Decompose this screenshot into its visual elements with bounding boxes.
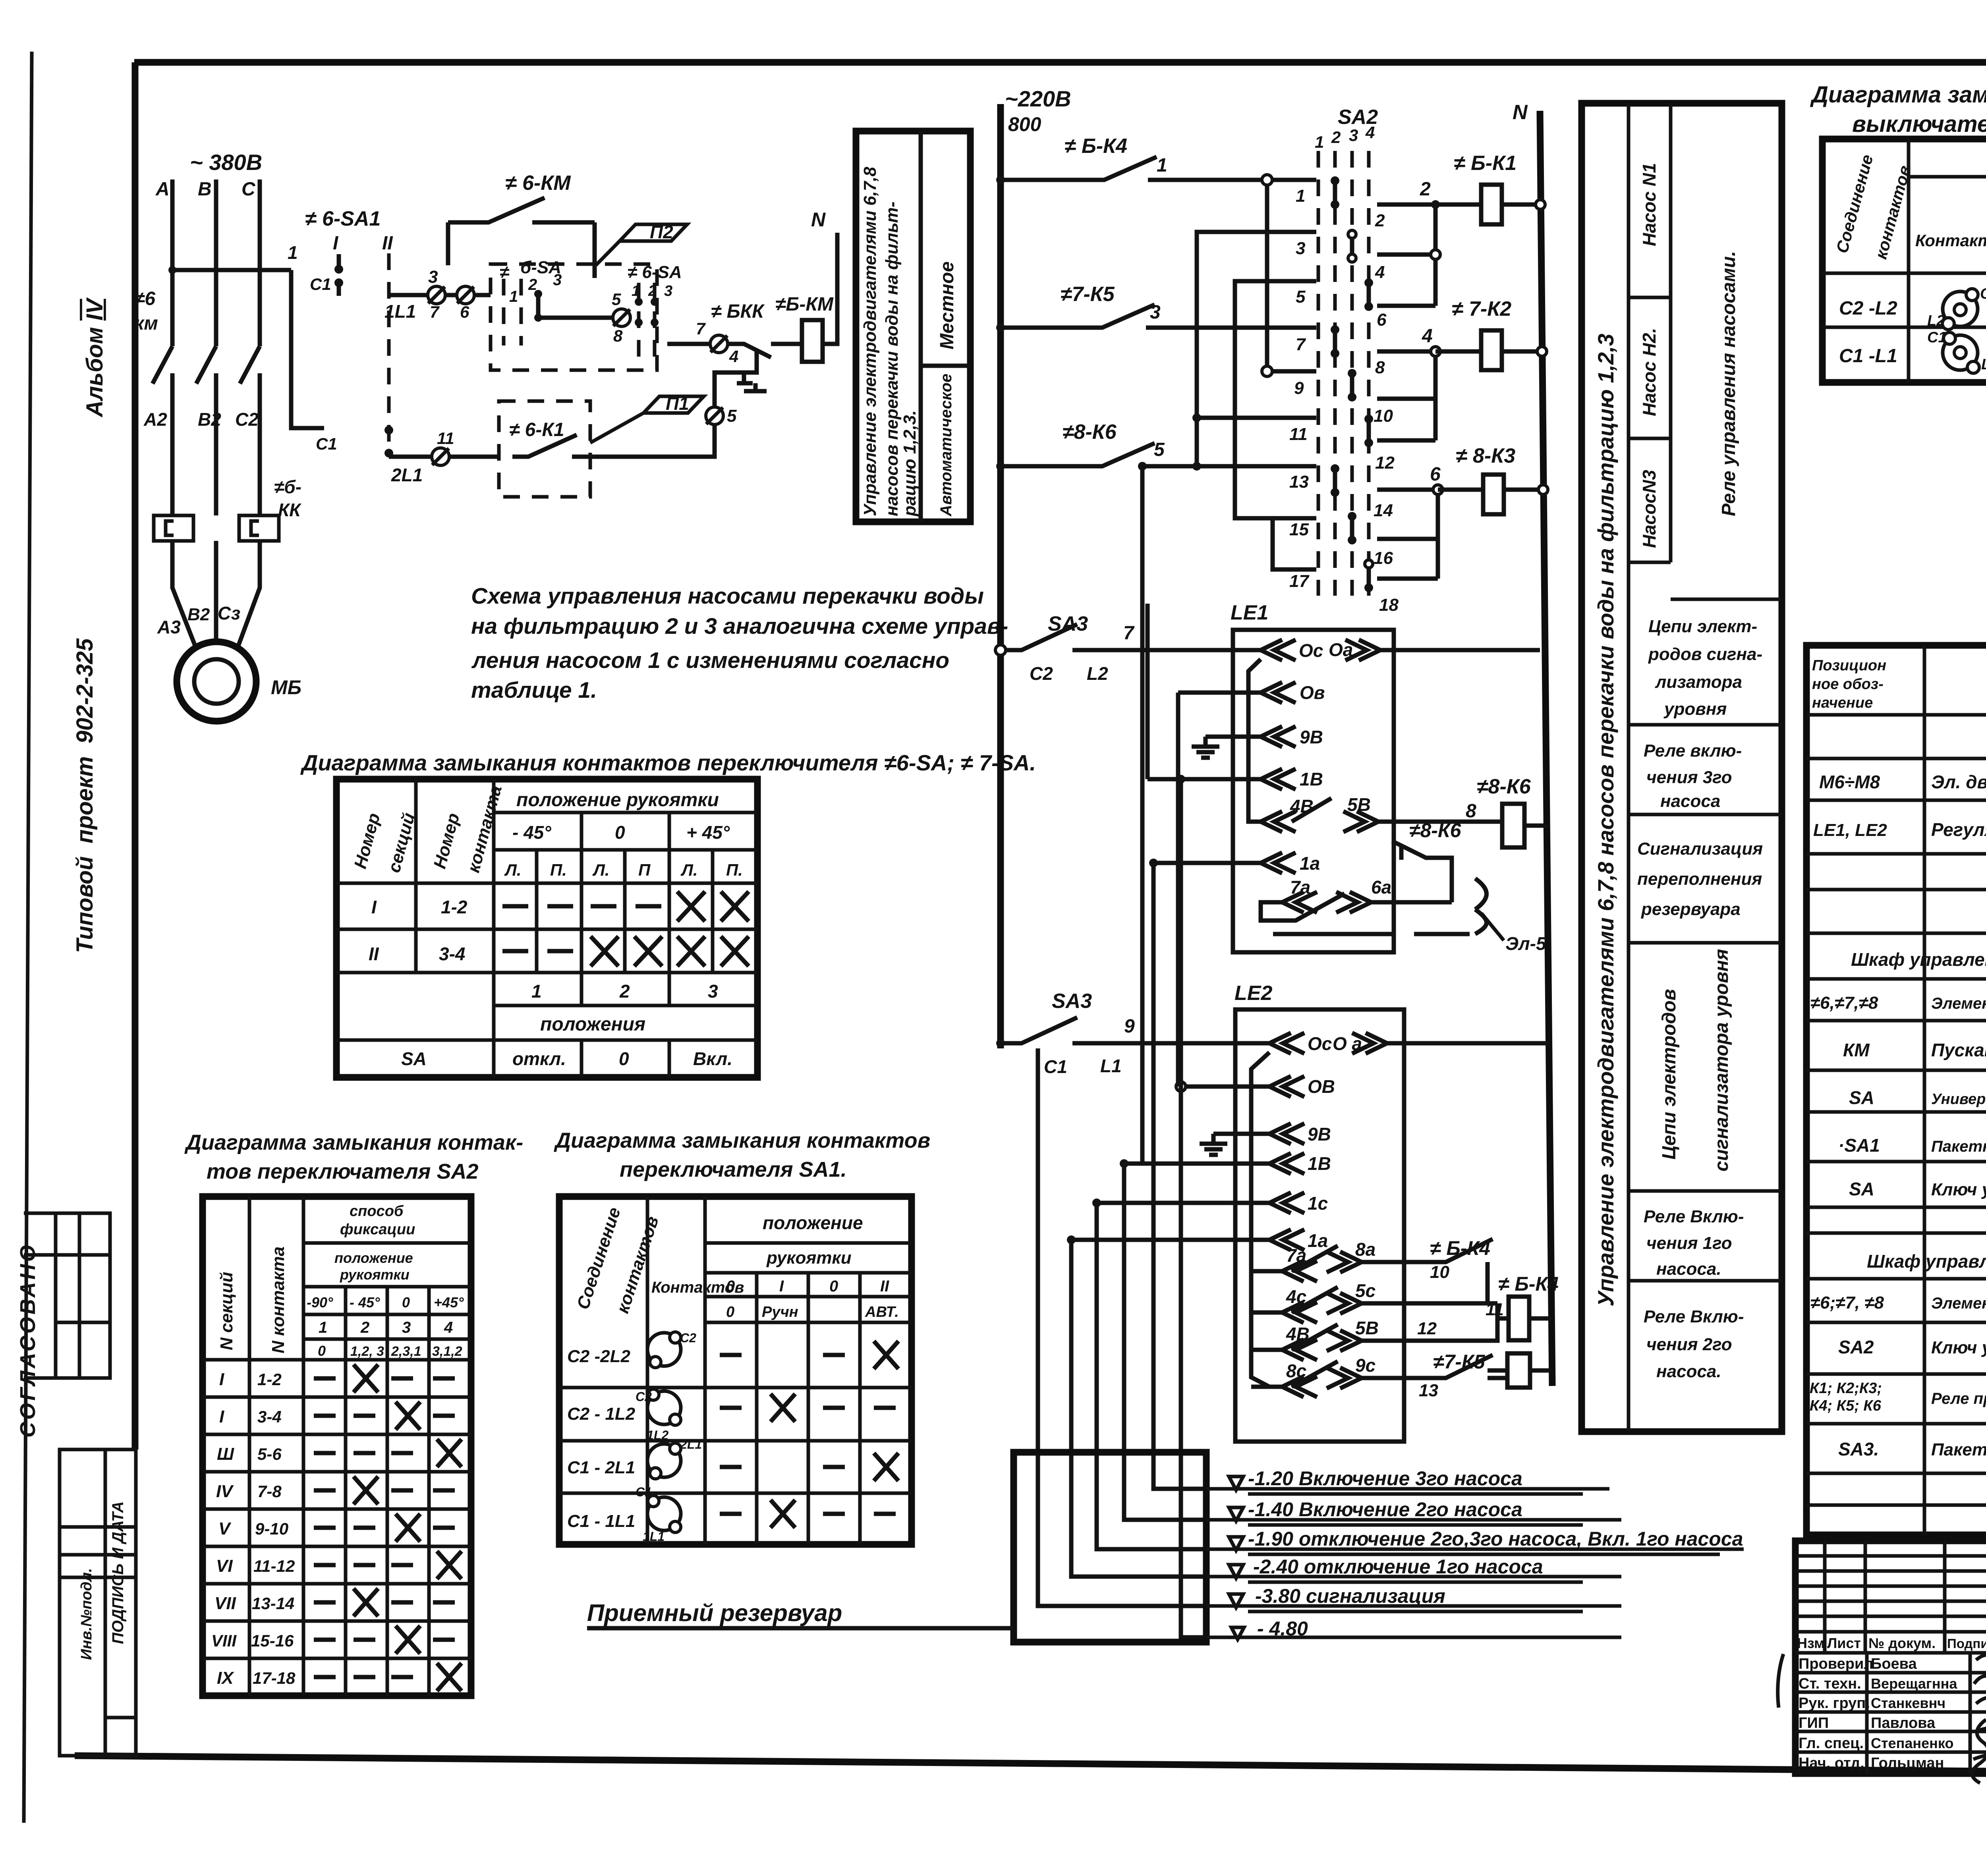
LE1 arrow 1V: [1148, 769, 1296, 789]
svg-text:Эл. двигатель типа А02-52-4,: Эл. двигатель типа А02-52-4, 10кВт, ~ 38…: [1931, 772, 1986, 792]
svg-text:≠6;≠7, ≠8: ≠6;≠7, ≠8: [1810, 1293, 1884, 1312]
svg-text:9-10: 9-10: [255, 1519, 288, 1538]
svg-text:положение: положение: [763, 1212, 863, 1233]
svg-text:2: 2: [360, 1319, 369, 1336]
svg-text:15: 15: [1289, 520, 1309, 539]
svg-text:1: 1: [288, 242, 298, 263]
svg-text:- 4.80: - 4.80: [1257, 1617, 1308, 1640]
wire 2L1 row: [389, 455, 499, 459]
relay K2 coil: [1481, 330, 1502, 370]
svg-text:≠ Б-К4: ≠ Б-К4: [1498, 1273, 1559, 1295]
svg-text:таблице 1.: таблице 1.: [471, 677, 597, 703]
dashed box SA selector P2: [491, 264, 657, 370]
svg-text:8: 8: [1466, 801, 1476, 822]
svg-text:С2 - 1L2: С2 - 1L2: [567, 1404, 636, 1424]
parts table verticals: [1924, 645, 1986, 1535]
svg-text:2: 2: [619, 981, 630, 1002]
thermal relay KK box A: [154, 515, 193, 541]
svg-text:1а: 1а: [1308, 1230, 1328, 1251]
svg-text:Реле Вклю-: Реле Вклю-: [1644, 1307, 1744, 1326]
svg-text:Типовой проект 902-2-325: Типовой проект 902-2-325: [72, 638, 98, 953]
svg-text:- 45°: - 45°: [350, 1294, 380, 1310]
svg-text:II: II: [880, 1278, 889, 1295]
row II dashes: [502, 949, 573, 953]
relay K2 feed wires: [1377, 351, 1435, 440]
svg-text:чения 2го: чения 2го: [1646, 1335, 1732, 1354]
svg-text:чения 3го: чения 3го: [1646, 768, 1732, 787]
svg-text:Шкаф управления насосами перек: Шкаф управления насосами перекачки воды …: [1851, 949, 1986, 970]
svg-text:ПОДПИСЬ И ДАТА: ПОДПИСЬ И ДАТА: [109, 1501, 127, 1644]
svg-text:положение рукоятки: положение рукоятки: [516, 789, 719, 811]
svg-text:7: 7: [696, 319, 706, 338]
svg-text:3: 3: [664, 283, 672, 299]
svg-text:1с: 1с: [1308, 1193, 1328, 1214]
svg-text:II: II: [369, 944, 379, 964]
svg-text:SА2: SА2: [1838, 1337, 1874, 1357]
svg-text:Местное: Местное: [937, 261, 958, 349]
svg-text:~220В: ~220В: [1005, 86, 1071, 111]
svg-text:Вкл.: Вкл.: [693, 1048, 732, 1069]
SA2 contact pair 1-2: [1333, 181, 1337, 205]
motor M6 inner circle: [194, 659, 239, 704]
svg-text:Автоматическое: Автоматическое: [937, 374, 955, 517]
svg-text:≠б-: ≠б-: [274, 477, 301, 497]
svg-text:≠ БКК: ≠ БКК: [711, 301, 765, 322]
tall function table frame: [1582, 103, 1782, 1432]
svg-text:1: 1: [1296, 186, 1305, 206]
svg-text:Боева: Боева: [1871, 1656, 1917, 1672]
electrode wire 1c2: [1097, 1203, 1206, 1549]
LE1 box: [1233, 630, 1394, 952]
svg-text:начение: начение: [1812, 695, 1873, 711]
svg-text:SА3: SА3: [1048, 612, 1088, 635]
svg-text:Ос: Ос: [1308, 1033, 1332, 1054]
svg-text:П1: П1: [666, 393, 689, 414]
svg-text:11-12: 11-12: [253, 1557, 295, 1575]
svg-text:+45°: +45°: [434, 1294, 464, 1310]
svg-text:С1 - 1L1: С1 - 1L1: [567, 1511, 635, 1531]
svg-text:К1; К2;К3;: К1; К2;К3;: [1810, 1380, 1882, 1397]
wire row17 to LE1 Ov: [1176, 693, 1180, 1087]
wire phase B2: [214, 373, 218, 515]
electrode wire 1v2: [1124, 1164, 1206, 1520]
svg-text:М6÷М8: М6÷М8: [1819, 772, 1880, 792]
svg-text:Пускатель магнитный ПАЕ312, Н: Пускатель магнитный ПАЕ312, Н.Э. 21. 2А …: [1931, 1040, 1986, 1060]
svg-text:LЕ1: LЕ1: [1231, 601, 1268, 624]
parts table horizontals: [1806, 715, 1986, 1505]
svg-text:Подпись: Подпись: [1947, 1636, 1986, 1651]
svg-text:ГИП: ГИП: [1799, 1715, 1829, 1731]
svg-text:17-18: 17-18: [253, 1669, 296, 1687]
svg-text:КМ: КМ: [1843, 1040, 1870, 1060]
svg-text:13: 13: [1289, 472, 1309, 492]
KM aux vertical stubs: [448, 222, 595, 278]
svg-text:LЕ2: LЕ2: [1234, 982, 1272, 1005]
svg-text:рукоятки: рукоятки: [766, 1248, 852, 1268]
wire KK to coil: [790, 342, 802, 346]
svg-text:5: 5: [612, 290, 621, 309]
svg-text:SА3: SА3: [1052, 990, 1092, 1013]
svg-text:ное обоз-: ное обоз-: [1812, 676, 1884, 693]
svg-text:Цепи электродов: Цепи электродов: [1659, 989, 1680, 1160]
svg-text:насоса: насоса: [1660, 791, 1720, 811]
SA2 table grid: [203, 1197, 471, 1696]
svg-text:3: 3: [1349, 126, 1358, 145]
svg-text:2,3,1: 2,3,1: [391, 1344, 421, 1359]
row marks 2: [314, 1414, 455, 1418]
svg-text:6а: 6а: [1371, 877, 1391, 897]
electrode wire c1 long: [1038, 1048, 1206, 1606]
svg-text:Регулятор-сигнализатор уровня: Регулятор-сигнализатор уровня ЭРСУ-3: [1931, 819, 1986, 840]
svg-text:Нзм: Нзм: [1797, 1635, 1825, 1651]
svg-text:Пакетный переключатель ПП2-10/: Пакетный переключатель ПП2-10/н2 ОСТ 160…: [1931, 1138, 1986, 1155]
svg-text:5: 5: [1154, 439, 1165, 460]
row marks 5: [314, 1526, 455, 1530]
svg-text:Сигнализация: Сигнализация: [1637, 839, 1763, 859]
svg-text:способ: способ: [350, 1203, 404, 1220]
svg-text:0: 0: [402, 1294, 410, 1310]
svg-text:≠8-К6: ≠8-К6: [1409, 819, 1462, 841]
svg-text:С2: С2: [636, 1390, 652, 1404]
svg-text:1: 1: [1157, 155, 1167, 176]
callout leader P2: [596, 241, 620, 265]
row marks 8: [314, 1638, 455, 1642]
reservoir box: [1014, 1452, 1206, 1642]
frame top border: [134, 59, 1986, 66]
svg-text:9В: 9В: [1300, 727, 1323, 747]
svg-text:1В: 1В: [1300, 769, 1323, 789]
svg-text:12: 12: [1417, 1319, 1437, 1338]
svg-text:Пакетный выключатель ПВ2-10.: Пакетный выключатель ПВ2-10. ОСТ 16.0. 5…: [1931, 1440, 1986, 1459]
svg-text:Степаненко: Степаненко: [1871, 1735, 1953, 1751]
row marks 1: [314, 1376, 455, 1381]
svg-text:-90°: -90°: [307, 1294, 333, 1310]
svg-text:А3: А3: [157, 617, 181, 637]
svg-text:11: 11: [437, 429, 454, 448]
SA1 contact II dots: [384, 426, 393, 434]
SA2 contact pair 9-10: [1350, 373, 1354, 397]
svg-text:Шкаф управления насосами перек: Шкаф управления насосами перекачки воды …: [1867, 1251, 1986, 1272]
svg-text:3: 3: [708, 981, 718, 1002]
relay K4 feed: [1404, 1303, 1497, 1341]
svg-text:4: 4: [1422, 326, 1433, 347]
relay K4 coil: [1509, 1297, 1529, 1340]
svg-text:родов сигна-: родов сигна-: [1648, 645, 1762, 664]
wire 1L1 row: [389, 293, 491, 297]
svg-text:Реле управления насосами.: Реле управления насосами.: [1718, 251, 1739, 516]
svg-text:5-6: 5-6: [257, 1445, 282, 1463]
svg-text:Реле промежуточноеРП-25, Чз -2: Реле промежуточноеРП-25, Чз -2р,~220В.ТУ…: [1931, 1390, 1986, 1407]
svg-text:С2: С2: [680, 1331, 696, 1345]
svg-text:9: 9: [1294, 378, 1304, 398]
wire tap from phase A: [172, 268, 291, 272]
row marks 3: [314, 1451, 413, 1455]
SA1 contact I dots: [337, 254, 341, 296]
svg-text:Элементы управления электродв: Элементы управления электродвигателями М…: [1931, 995, 1986, 1012]
svg-text:3: 3: [428, 267, 438, 287]
svg-text:С2 -2L2: С2 -2L2: [567, 1347, 630, 1366]
svg-text:·SА1: ·SА1: [1838, 1135, 1880, 1156]
KM aux contact wire left: [448, 198, 595, 222]
SA2 contact pair 13-14: [1333, 469, 1337, 492]
SA contacts left group: [504, 279, 521, 345]
svg-text:≠ 6-SA1: ≠ 6-SA1: [305, 207, 381, 230]
signatures squiggles: [1974, 1655, 1986, 1706]
cam diagram row2: [1943, 335, 1978, 370]
electrode wire 1a2: [1071, 1240, 1206, 1577]
svg-text:Ключ управления ПКУ3-12Ф5002 М: Ключ управления ПКУ3-12Ф5002 МРТУ 16-526…: [1931, 1338, 1986, 1357]
svg-text:СОГЛАСОВАНО: СОГЛАСОВАНО: [16, 1243, 40, 1438]
svg-text:С1: С1: [636, 1485, 652, 1499]
svg-text:КК: КК: [278, 500, 301, 520]
row II X marks: [591, 936, 749, 966]
svg-text:Позицион: Позицион: [1812, 657, 1886, 674]
svg-text:Насос N1: Насос N1: [1639, 163, 1660, 246]
svg-text:Диаграмма замыкания контактов: Диаграмма замыкания контактов: [554, 1129, 930, 1152]
svg-text:~ 380В: ~ 380В: [190, 150, 262, 175]
svg-text:1L2: 1L2: [647, 1428, 668, 1442]
reservoir ground line: [587, 1626, 1014, 1631]
svg-text:0: 0: [619, 1048, 629, 1069]
svg-text:Насос Н2.: Насос Н2.: [1639, 328, 1660, 416]
svg-text:≠ 6-К1: ≠ 6-К1: [509, 419, 564, 440]
svg-text:SА3.: SА3.: [1838, 1439, 1879, 1459]
level line -2.40: [1206, 1575, 1621, 1579]
svg-text:3: 3: [402, 1319, 411, 1336]
motor M6 outer circle: [177, 642, 256, 721]
svg-text:П.: П.: [726, 861, 743, 879]
svg-text:Л.: Л.: [504, 861, 522, 879]
svg-text:-3.80 сигнализация: -3.80 сигнализация: [1255, 1585, 1445, 1607]
bushing 4: [710, 335, 728, 353]
svg-text:VII: VII: [214, 1594, 236, 1613]
svg-text:положение: положение: [334, 1250, 413, 1266]
svg-text:положения: положения: [540, 1014, 645, 1035]
svg-text:0: 0: [726, 1304, 734, 1320]
electrode wire 1v1 deep: [1181, 779, 1206, 1637]
svg-text:насосов перекачки воды на филь: насосов перекачки воды на фильт-: [882, 201, 902, 516]
svg-text:Управление электродвигателями: Управление электродвигателями 6,7,8 насо…: [1593, 334, 1618, 1307]
SA1 dashed line II: [387, 253, 391, 456]
svg-text:А: А: [155, 179, 170, 200]
thermal relay KK box C: [239, 515, 279, 541]
LE2 arrow 1V: [1124, 1153, 1304, 1174]
svg-text:А2: А2: [143, 409, 167, 430]
svg-text:В2: В2: [187, 605, 210, 624]
svg-text:II: II: [382, 233, 393, 254]
LE2 arrow 1c: [1097, 1193, 1304, 1213]
svg-text:км: км: [134, 313, 158, 334]
svg-text:Контактов: Контактов: [1915, 231, 1986, 250]
svg-text:АВТ.: АВТ.: [865, 1304, 899, 1320]
signal device EL-5: [1475, 878, 1487, 934]
svg-text:Приемный резервуар: Приемный резервуар: [587, 1600, 842, 1626]
svg-text:Универсальный переключатель У: Универсальный переключатель УП5311-А3Б. …: [1931, 1091, 1986, 1108]
push button: [737, 372, 767, 391]
svg-text:лизатора: лизатора: [1655, 672, 1742, 692]
svg-text:≠ Б-К1: ≠ Б-К1: [1454, 152, 1517, 175]
left stamp lower box: [60, 1449, 136, 1756]
svg-text:IX: IX: [217, 1668, 234, 1688]
svg-text:1-2: 1-2: [257, 1370, 282, 1389]
svg-text:переключателя SА1.: переключателя SА1.: [620, 1158, 847, 1181]
svg-text:0: 0: [615, 822, 625, 843]
svg-text:≠ Б-К4: ≠ Б-К4: [1064, 135, 1127, 158]
svg-text:Нач. отд.: Нач. отд.: [1799, 1755, 1864, 1772]
svg-text:16: 16: [1374, 548, 1393, 568]
svg-text:VIII: VIII: [211, 1631, 237, 1650]
revision stroke: [1778, 1654, 1783, 1708]
svg-text:11: 11: [1289, 425, 1308, 444]
svg-text:6: 6: [1377, 310, 1387, 330]
svg-text:на фильтрацию 2 и 3 аналогичн: на фильтрацию 2 и 3 аналогична схеме упр…: [471, 614, 1008, 639]
svg-text:-1.90 отключение 2го,3го насо: -1.90 отключение 2го,3го насоса, Вкл. 1г…: [1248, 1528, 1743, 1550]
svg-text:I: I: [219, 1407, 224, 1426]
svg-text:3: 3: [1150, 302, 1161, 323]
svg-text:2L1: 2L1: [391, 465, 423, 485]
bushing 11: [432, 448, 449, 465]
svg-text:Лист: Лист: [1827, 1635, 1861, 1651]
svg-text:N секций: N секций: [217, 1272, 236, 1350]
sheet left edge line: [24, 52, 32, 1823]
svg-text:МБ: МБ: [271, 676, 301, 699]
relay K3 feed wires: [1377, 490, 1438, 579]
parts table frame: [1806, 645, 1986, 1535]
svg-text:1-2: 1-2: [441, 897, 468, 917]
wire C1 drop: [291, 270, 324, 428]
mode table box: [856, 131, 970, 522]
SA2 contact pair 3-4: [1350, 234, 1354, 258]
svg-text:0: 0: [829, 1278, 838, 1295]
svg-text:2: 2: [1331, 128, 1341, 147]
svg-text:0: 0: [726, 1278, 735, 1295]
svg-text:2: 2: [1375, 211, 1385, 230]
svg-text:8а: 8а: [1355, 1239, 1376, 1260]
LE1 bottom internal line: [1273, 932, 1470, 936]
svg-text:8: 8: [1375, 358, 1385, 377]
frame left border: [132, 62, 139, 1449]
svg-text:7: 7: [1296, 335, 1306, 354]
svg-text:V: V: [218, 1519, 232, 1538]
svg-text:3: 3: [1296, 239, 1305, 258]
svg-text:1: 1: [1315, 133, 1324, 151]
P2 callout: [620, 224, 687, 241]
svg-text:6: 6: [460, 303, 469, 321]
svg-text:17: 17: [1289, 571, 1310, 591]
svg-text:Станкевнч: Станкевнч: [1871, 1695, 1945, 1711]
svg-text:фиксации: фиксации: [340, 1221, 415, 1238]
svg-text:сигнализатора уровня: сигнализатора уровня: [1711, 949, 1732, 1172]
svg-text:LЕ1, LЕ2: LЕ1, LЕ2: [1813, 820, 1887, 840]
svg-text:3: 3: [553, 271, 562, 289]
LE2 arrow Os: [1269, 1033, 1304, 1054]
row I dashes: [502, 904, 661, 909]
bushing 5/8: [613, 309, 630, 326]
wire coil to N: [823, 233, 837, 344]
svg-text:SА: SА: [401, 1048, 427, 1069]
svg-text:Реле вклю-: Реле вклю-: [1644, 741, 1742, 760]
svg-text:5: 5: [1296, 287, 1306, 307]
SA1 table grid: [559, 1197, 912, 1544]
svg-text:резервуара: резервуара: [1641, 899, 1741, 919]
svg-text:9с: 9с: [1355, 1355, 1376, 1376]
LE2 arrow Ov: [1181, 1076, 1304, 1097]
svg-text:Гольцман: Гольцман: [1871, 1755, 1944, 1772]
svg-text:-1.20 Включение 3го насоса: -1.20 Включение 3го насоса: [1248, 1467, 1522, 1490]
relay K3 coil: [1483, 475, 1504, 514]
wire phase C3: [238, 541, 260, 646]
electrode wire 1a1: [1153, 863, 1206, 1489]
svg-text:15-16: 15-16: [251, 1631, 294, 1650]
svg-text:1L1: 1L1: [384, 301, 416, 322]
svg-text:10: 10: [1430, 1262, 1449, 1282]
svg-text:1: 1: [509, 288, 518, 305]
svg-text:4: 4: [1375, 262, 1385, 282]
relay K6 break contact: [1392, 841, 1452, 902]
svg-text:Сз: Сз: [218, 603, 240, 623]
SA2 contact pair 7-8: [1333, 330, 1337, 353]
svg-text:К4; К5; К6: К4; К5; К6: [1810, 1397, 1882, 1414]
svg-text:L1: L1: [1100, 1056, 1122, 1076]
row I X marks: [677, 892, 749, 921]
svg-text:2: 2: [528, 276, 537, 293]
relay K6 coil: [1502, 804, 1524, 847]
svg-text:Инв.№подл.: Инв.№подл.: [78, 1568, 95, 1660]
title block outer: [1795, 1541, 1986, 1774]
svg-text:П.: П.: [550, 861, 567, 879]
svg-text:13: 13: [1419, 1381, 1438, 1400]
svg-text:Проверил: Проверил: [1799, 1656, 1873, 1672]
svg-text:переполнения: переполнения: [1637, 869, 1762, 889]
svg-text:N: N: [1513, 101, 1528, 124]
LE1 arrow 1a: [1153, 853, 1296, 873]
svg-text:С1: С1: [310, 275, 331, 293]
svg-text:6: 6: [1430, 464, 1441, 485]
svg-text:Павлова: Павлова: [1871, 1715, 1936, 1731]
svg-text:-1.40 Включение 2го насоса: -1.40 Включение 2го насоса: [1248, 1498, 1522, 1521]
LE2 arrow 1a: [1071, 1229, 1304, 1250]
table SA3 grid: [1822, 139, 1986, 382]
svg-text:1: 1: [319, 1319, 327, 1336]
svg-text:Диаграмма замыкания контактов: Диаграмма замыкания контактов переключит…: [300, 750, 1036, 775]
LE2 ground: [1200, 1134, 1269, 1155]
SA contacts right group: [639, 283, 655, 359]
svg-text:L1: L1: [1981, 356, 1986, 373]
svg-text:18: 18: [1379, 595, 1399, 615]
svg-text:Диаграмма замыкания контактов: Диаграмма замыкания контактов: [1810, 82, 1986, 108]
LE1 arrow 4V with blade: [1261, 798, 1331, 832]
svg-text:- 45°: - 45°: [512, 822, 551, 843]
svg-text:N контакта: N контакта: [269, 1247, 288, 1353]
svg-text:С1 -L1: С1 -L1: [1839, 345, 1897, 367]
table 6-SA grid: [336, 779, 757, 1077]
svg-text:L2: L2: [1087, 663, 1108, 684]
svg-text:В2: В2: [198, 409, 221, 430]
level line -3.80: [1206, 1604, 1621, 1608]
svg-text:№ докум.: № докум.: [1868, 1635, 1936, 1651]
LE2 internal zigzag link: [1251, 1052, 1269, 1387]
level line -4.80: [1206, 1636, 1621, 1639]
svg-text:Верещагнна: Верещагнна: [1871, 1675, 1957, 1692]
relay K1 coil: [1481, 185, 1502, 224]
svg-text:П2: П2: [650, 222, 673, 242]
left stamp upper box: [24, 1213, 110, 1378]
svg-text:4: 4: [729, 347, 738, 366]
svg-text:4В: 4В: [1290, 796, 1314, 816]
row marks 9: [314, 1675, 413, 1679]
svg-text:≠6: ≠6: [134, 288, 155, 309]
svg-text:Реле Вклю-: Реле Вклю-: [1644, 1207, 1744, 1226]
